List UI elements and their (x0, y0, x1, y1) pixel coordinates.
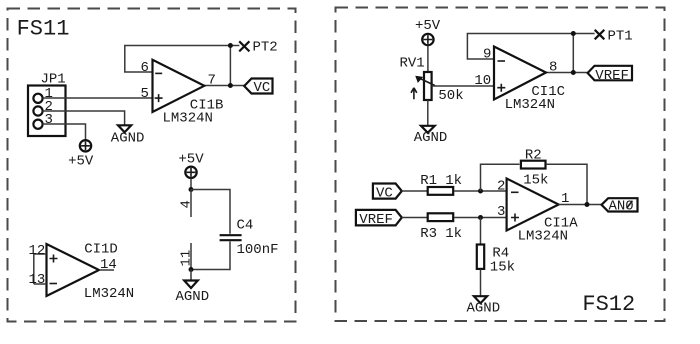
svg-text:12: 12 (29, 243, 46, 259)
net flag VREF (FS12 output) (588, 66, 632, 81)
ground AGND under RV1 (421, 126, 435, 133)
svg-text:LM324N: LM324N (518, 229, 568, 245)
connector JP1 body (28, 86, 66, 137)
wire pin3 node to R4 (480, 218, 482, 245)
wire JP1 pin2 to AGND (43, 111, 125, 125)
JP1 pin 2 circle (33, 106, 42, 115)
junction pin3 node (478, 215, 483, 220)
junction output node (585, 202, 590, 207)
wire CI1A output to AN0 (559, 204, 602, 206)
net flag VREF (FS12 input) (356, 210, 402, 226)
svg-text:VC: VC (376, 185, 393, 201)
junction output (228, 83, 233, 88)
svg-text:11: 11 (179, 250, 195, 267)
ground AGND under JP1 pin2 (118, 125, 131, 132)
svg-text:AGND: AGND (111, 130, 145, 146)
svg-text:3: 3 (45, 112, 53, 128)
wire node to C4 top (191, 190, 230, 234)
svg-text:LM324N: LM324N (84, 286, 134, 302)
op-amp CI1D (47, 244, 100, 296)
wire VC to R1 (402, 190, 428, 192)
wire R1 to CI1A pin2 (454, 190, 507, 192)
wire CI1D pin12 stub (34, 253, 47, 255)
junction output (571, 70, 576, 75)
wire R3 to CI1A pin3 (454, 217, 507, 219)
wire +5V down to node (190, 178, 192, 189)
junction ground node (189, 267, 194, 272)
svg-text:+5V: +5V (415, 18, 441, 34)
svg-text:+5V: +5V (68, 154, 94, 170)
ground AGND under C4 (184, 281, 198, 289)
wire R2 to output (546, 164, 587, 204)
wire C4 bottom to ground node (191, 242, 230, 270)
wire node to AGND (190, 270, 192, 281)
sheet FS12 border (336, 8, 665, 322)
wire CI1D output pin14 (99, 269, 114, 271)
wire CI1B output pin7 (204, 85, 246, 87)
svg-text:3: 3 (497, 204, 505, 220)
wire JP1 pin1 to CI1B pin5 (43, 97, 152, 99)
svg-text:5: 5 (141, 86, 149, 102)
wire +5V to RV1 (427, 46, 429, 72)
svg-text:VREF: VREF (359, 212, 393, 228)
svg-text:2: 2 (497, 179, 505, 195)
wire CI1C output pin8 (546, 72, 588, 74)
wire tying pins 12-13 (33, 254, 35, 284)
testpoint PT2 (239, 41, 249, 51)
svg-text:7: 7 (208, 73, 216, 89)
svg-text:FS12: FS12 (582, 292, 635, 317)
junction top (571, 31, 576, 36)
svg-text:4: 4 (179, 200, 195, 208)
svg-text:AGND: AGND (176, 289, 210, 305)
svg-text:RV1: RV1 (400, 56, 425, 72)
svg-text:AGND: AGND (467, 301, 501, 317)
wire feedback up to R2 (481, 164, 520, 191)
svg-text:R2: R2 (525, 148, 542, 164)
junction pin2 node (478, 189, 483, 194)
resistor R1 (428, 187, 454, 195)
svg-text:PT2: PT2 (253, 40, 278, 56)
svg-text:R3: R3 (420, 226, 437, 242)
testpoint PT1 (595, 30, 605, 40)
svg-text:9: 9 (483, 47, 491, 63)
net flag AN0 (602, 198, 638, 211)
svg-text:LM324N: LM324N (163, 111, 213, 127)
svg-text:1k: 1k (445, 173, 462, 189)
op-amp CI1B (153, 60, 205, 112)
resistor R3 (428, 213, 454, 221)
resistor R4 (477, 245, 484, 269)
wire VREF to R3 (402, 217, 428, 219)
RV1 wiper arrow (417, 77, 435, 86)
svg-text:AN0: AN0 (609, 199, 634, 215)
svg-text:14: 14 (100, 257, 117, 273)
svg-text:LM324N: LM324N (505, 97, 555, 113)
wire RV1 wiper to CI1C pin10 (432, 85, 494, 87)
svg-text:1k: 1k (445, 226, 462, 242)
wire output to feedback vertical (229, 46, 231, 86)
op-amp CI1A (507, 179, 559, 231)
wire output to feedback vertical (572, 34, 574, 73)
net flag VC (FS12 input) (373, 184, 402, 199)
svg-text:VC: VC (254, 80, 271, 96)
sheet FS11 border (8, 9, 296, 322)
op-amp CI1C (494, 47, 546, 100)
RV1 adjust arrow (411, 88, 417, 99)
wire CI1B pin6 feedback loop (125, 46, 240, 73)
svg-text:15k: 15k (490, 260, 515, 276)
svg-text:15k: 15k (523, 173, 548, 189)
wire JP1 pin3 to +5V (43, 124, 86, 140)
junction +5V node (189, 187, 194, 192)
capacitor C4 (220, 235, 242, 240)
svg-text:R1: R1 (420, 173, 437, 189)
JP1 pin 3 circle (33, 120, 42, 129)
svg-text:C4: C4 (237, 218, 254, 234)
svg-text:100nF: 100nF (237, 242, 279, 258)
potentiometer RV1 body (424, 72, 432, 100)
svg-text:FS11: FS11 (17, 17, 70, 42)
wire RV1 bottom to AGND (427, 100, 429, 126)
junction top (228, 43, 233, 48)
svg-text:VREF: VREF (595, 68, 629, 84)
svg-text:8: 8 (549, 60, 557, 76)
wire CI1D pin13 stub (34, 283, 47, 285)
JP1 pin 1 circle (33, 94, 42, 103)
svg-text:10: 10 (474, 73, 491, 89)
svg-text:13: 13 (29, 272, 46, 288)
power +5V under JP1 (80, 140, 91, 151)
svg-text:CI1D: CI1D (84, 242, 118, 258)
svg-text:+5V: +5V (178, 152, 204, 168)
svg-text:50k: 50k (438, 88, 463, 104)
svg-text:6: 6 (141, 60, 149, 76)
ground AGND under R4 (474, 296, 487, 303)
net flag VC (FS11 output) (244, 79, 272, 94)
wire R4 to AGND (480, 269, 482, 296)
wire CI1C pin9 feedback loop (467, 34, 594, 60)
svg-text:AGND: AGND (414, 130, 448, 146)
wire power pin 4 stub (190, 190, 192, 218)
wire power pin 11 stub (190, 243, 192, 270)
resistor R2 (521, 161, 546, 169)
svg-text:PT1: PT1 (608, 29, 633, 45)
